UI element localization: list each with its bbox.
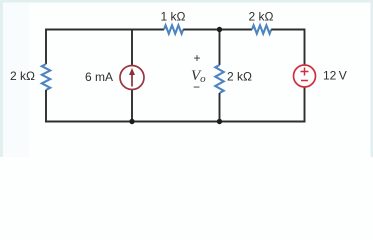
voltage source 12 V <box>294 65 316 87</box>
wire: top segment to top-right corner <box>271 29 304 31</box>
wire: right branch lower <box>304 87 306 123</box>
resistor 1 kOhm (top horizontal zigzag) <box>164 25 183 33</box>
svg-text:+: + <box>193 51 200 65</box>
wire: left branch lower <box>45 90 47 123</box>
wire: middle branch lower <box>219 93 221 122</box>
svg-text:2 kΩ: 2 kΩ <box>249 10 274 24</box>
resistor 2 kOhm (left vertical zigzag) <box>42 64 50 90</box>
wire: top segment from top-left corner to 1k resistor <box>46 29 164 31</box>
svg-text:1 kΩ: 1 kΩ <box>161 10 186 24</box>
svg-text:6 mA: 6 mA <box>85 70 113 84</box>
svg-text:−: − <box>193 80 200 94</box>
node: bottom junction dot at middle branch <box>217 119 222 124</box>
wire: current source branch upper <box>131 30 133 67</box>
node: bottom junction dot at current source branch <box>129 119 134 124</box>
resistor 2 kOhm (top-right horizontal zigzag) <box>252 25 271 33</box>
wire: middle branch upper <box>219 30 221 66</box>
resistor 2 kOhm (middle vertical zigzag) <box>215 65 223 93</box>
svg-text:12 V: 12 V <box>323 69 347 83</box>
svg-text:2 kΩ: 2 kΩ <box>10 69 35 83</box>
wire: left branch upper <box>45 29 47 65</box>
svg-text:2 kΩ: 2 kΩ <box>227 70 252 84</box>
wire: right branch upper <box>304 29 306 66</box>
node: top junction dot <box>217 27 222 32</box>
wire: bottom rail <box>45 120 306 122</box>
current source 6 mA <box>120 66 144 90</box>
wire: top segment between 1k and 2k resistors <box>183 29 252 31</box>
wire: current source branch lower <box>131 90 133 122</box>
